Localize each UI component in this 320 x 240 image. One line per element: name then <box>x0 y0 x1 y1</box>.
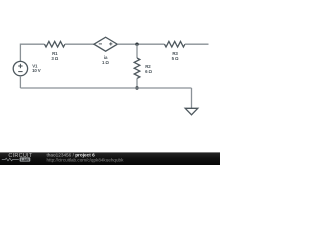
dependent source ia (CCVS diamond) <box>94 37 117 51</box>
CircuitLab logo LAB badge <box>20 157 31 161</box>
svg-text:10 V: 10 V <box>32 68 41 73</box>
wire top-left from V1 up and right to R1 <box>20 44 44 61</box>
node B junction dot bottom of R2 <box>135 86 138 89</box>
svg-text:5 Ω: 5 Ω <box>172 56 179 61</box>
wire node A down to R2 <box>136 44 138 58</box>
CircuitLab logo waveform <box>2 158 19 161</box>
wire R1 to dependent source <box>65 43 94 45</box>
wire R2 bottom to bottom rail <box>136 78 138 88</box>
wire V1 bottom to bottom rail <box>19 76 21 88</box>
plus sign inside <box>109 43 112 45</box>
plus sign inside V1 <box>18 65 22 67</box>
svg-text:1 Ω: 1 Ω <box>102 60 109 65</box>
svg-text:6 Ω: 6 Ω <box>145 69 152 74</box>
svg-text:LAB: LAB <box>21 158 29 162</box>
minus sign inside <box>99 43 102 45</box>
minus sign inside V1 <box>18 71 22 73</box>
node A junction dot top of R2 <box>135 43 138 46</box>
svg-text:3 Ω: 3 Ω <box>51 56 58 61</box>
wire bottom rail to ground <box>191 88 193 108</box>
wire bottom rail <box>20 87 191 89</box>
resistor R2 vertical <box>134 58 140 78</box>
resistor R3 <box>165 41 185 47</box>
voltage source V1 <box>13 61 27 75</box>
resistor R1 <box>45 41 65 47</box>
ground <box>185 108 198 115</box>
wire R3 to open end right <box>185 43 209 45</box>
wire dependent source to node A and R3 <box>117 43 164 45</box>
svg-text:http://circuitlab.com/c/qpk84k: http://circuitlab.com/c/qpk84kuehqubk <box>47 158 125 163</box>
